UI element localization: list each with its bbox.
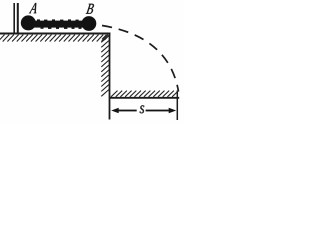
ball A [21, 15, 36, 30]
spring bar between A and B [34, 19, 84, 29]
label B [86, 4, 95, 14]
label s [140, 105, 145, 113]
dimension arrow right segment with arrowhead [146, 108, 177, 114]
dashed trajectory curve [102, 26, 179, 92]
dimension arrow left segment with arrowhead [111, 108, 137, 114]
table edge hatching [101, 36, 109, 97]
table top surface line [0, 33, 110, 35]
table top hatching [0, 35, 109, 42]
ground hatching [111, 91, 179, 97]
label A [29, 3, 38, 13]
table right edge line [109, 33, 111, 120]
right extent line [176, 91, 178, 121]
ball B [82, 16, 97, 31]
wall post (double vertical line) [14, 3, 18, 33]
ground line [110, 97, 179, 99]
